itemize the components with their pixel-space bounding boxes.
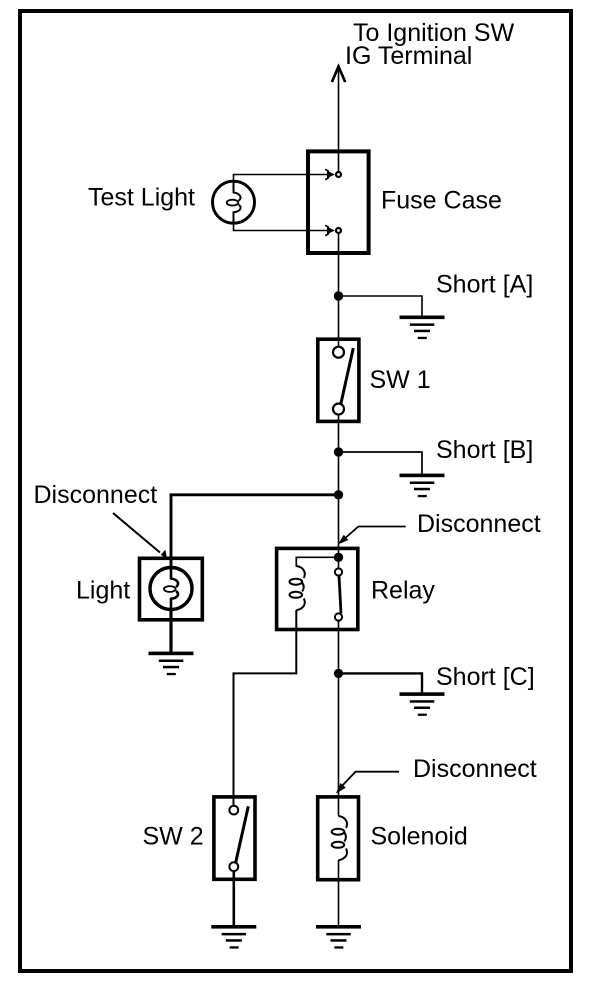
svg-text:Short [B]: Short [B] bbox=[436, 436, 533, 464]
switch SW2 box bbox=[214, 797, 255, 879]
wire short C branch bbox=[339, 673, 423, 692]
solenoid box bbox=[318, 797, 359, 880]
switch SW1 box bbox=[318, 339, 359, 421]
light bulb bbox=[150, 568, 192, 610]
ground short C bbox=[400, 692, 445, 716]
fuse terminal 2 (pin circle) bbox=[336, 228, 341, 233]
svg-text:Short [A]: Short [A] bbox=[436, 271, 533, 299]
svg-text:SW 1: SW 1 bbox=[370, 366, 431, 394]
SW1 lever bbox=[341, 348, 354, 404]
solenoid coil bbox=[332, 816, 347, 860]
node Short C (junction dot) bbox=[334, 669, 343, 678]
svg-text:SW 2: SW 2 bbox=[143, 823, 204, 851]
SW2 bottom contact bbox=[229, 862, 238, 871]
svg-text:Solenoid: Solenoid bbox=[371, 823, 468, 851]
ground short A bbox=[400, 316, 445, 340]
arrow to ignition (up arrowhead) bbox=[332, 66, 345, 82]
wire light to ground bbox=[169, 609, 172, 652]
label To Ignition SW / IG Terminal bbox=[345, 19, 515, 70]
wire SW2 to ground bbox=[233, 871, 236, 926]
svg-text:Disconnect: Disconnect bbox=[34, 481, 158, 509]
ground light bbox=[149, 652, 194, 676]
wire main vertical: arrow to fuse terminal 1 bbox=[338, 68, 340, 172]
wire test light top lead bbox=[234, 175, 329, 182]
SW2 top contact bbox=[229, 806, 238, 815]
svg-text:IG Terminal: IG Terminal bbox=[345, 42, 472, 70]
wire disconnect branch to light bbox=[171, 495, 339, 568]
relay lever bbox=[339, 576, 341, 614]
wire solenoid to ground bbox=[338, 860, 340, 926]
ground solenoid bbox=[316, 925, 361, 949]
relay bottom contact bbox=[335, 613, 342, 620]
wire relay coil to SW2 bbox=[234, 610, 297, 806]
arrowhead at fuse terminal 1 bbox=[325, 169, 335, 180]
SW2 lever bbox=[236, 806, 249, 862]
fuse terminal 1 (pin circle) bbox=[336, 172, 341, 177]
svg-text:Disconnect: Disconnect bbox=[413, 755, 537, 783]
arrow disconnect-left pointer bbox=[113, 513, 167, 559]
svg-text:Relay: Relay bbox=[371, 576, 435, 604]
wire main vertical: SW1 to relay contact bbox=[338, 415, 340, 569]
relay top contact bbox=[335, 568, 342, 575]
wire short B branch bbox=[339, 452, 423, 474]
ground short B bbox=[400, 474, 445, 498]
svg-text:Short [C]: Short [C] bbox=[436, 663, 535, 691]
svg-text:Fuse Case: Fuse Case bbox=[381, 187, 502, 215]
relay coil bbox=[290, 566, 305, 610]
light box bbox=[140, 558, 203, 620]
wire test light bottom lead bbox=[234, 223, 329, 231]
svg-text:Light: Light bbox=[76, 576, 130, 604]
arrowhead at fuse terminal 2 bbox=[325, 225, 335, 236]
arrow disconnect-solenoid pointer bbox=[336, 772, 399, 794]
svg-text:Test Light: Test Light bbox=[88, 184, 195, 212]
fuse case box bbox=[308, 151, 369, 253]
test light bulb bbox=[213, 181, 255, 223]
wire main vertical: relay to solenoid bbox=[338, 621, 340, 817]
wire short A branch bbox=[339, 296, 423, 316]
SW1 top contact bbox=[333, 347, 344, 358]
node disconnect-left (junction dot) bbox=[334, 490, 343, 499]
arrow disconnect-relay pointer bbox=[338, 527, 406, 545]
ground SW2 bbox=[211, 925, 256, 949]
wire main vertical: fuse terminal 2 to SW1 bbox=[338, 234, 340, 347]
node Short B (junction dot) bbox=[334, 447, 343, 456]
svg-text:Disconnect: Disconnect bbox=[417, 510, 541, 538]
SW1 bottom contact bbox=[333, 404, 344, 415]
node relay input (junction dot) bbox=[334, 553, 343, 562]
node Short A (junction dot) bbox=[334, 291, 343, 300]
wire relay coil feed bbox=[296, 557, 338, 566]
relay box bbox=[277, 548, 358, 629]
